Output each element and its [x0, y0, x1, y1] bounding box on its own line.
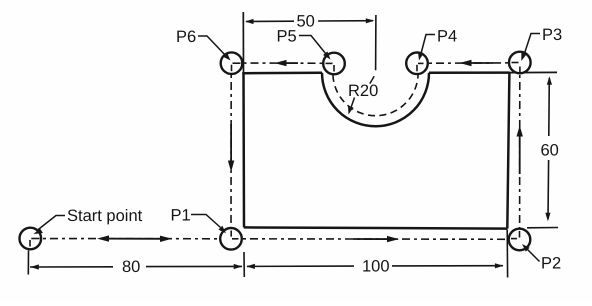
label P2 + leader [522, 244, 561, 273]
svg-text:Start point: Start point [67, 207, 143, 225]
tool path bottom segment P1-P2 dashed [231, 238, 520, 241]
contour bottom edge [244, 227, 508, 228]
dimension 50: line, arrows, text [245, 13, 374, 31]
svg-text:P5: P5 [277, 28, 297, 46]
tool path top segment P4-P3 dashed [417, 62, 520, 65]
svg-text:R20: R20 [348, 82, 378, 100]
tool circle P2 [509, 229, 531, 251]
label P5 + leader [277, 28, 331, 60]
tool path top segment P6-P5 dashed [232, 62, 335, 64]
tool circle Start point [20, 228, 42, 250]
tool path dashed arc P5-P4 [333, 64, 418, 116]
svg-text:50: 50 [297, 13, 315, 31]
R20 radial tick from arc centre [370, 76, 374, 83]
svg-text:100: 100 [362, 258, 390, 276]
svg-text:80: 80 [122, 258, 140, 276]
direction arrow P3-to-P4 left [460, 60, 494, 66]
label R20 + leader arrow to dashed arc [348, 82, 378, 115]
direction arrow P5-to-P6 left [275, 60, 299, 66]
direction arrow P6-to-P1 down [228, 124, 234, 172]
tool path right vertical P2-P3 dashed [519, 63, 521, 240]
dimension 50 right extension line [375, 15, 377, 70]
tool circle P4 [406, 53, 428, 75]
dimension 80: extensions, line, arrows, text [28, 251, 244, 278]
svg-text:P1: P1 [171, 207, 191, 225]
tool circle P5 [323, 53, 345, 75]
contour right edge [507, 73, 509, 229]
direction arrow P1-to-P2 right [353, 236, 399, 242]
tool circle P3 [509, 52, 531, 74]
svg-text:60: 60 [541, 142, 559, 160]
label P6 + leader [176, 28, 231, 61]
tool path start segment Start-P1 dashed [31, 238, 231, 240]
double direction arrow Start-P1 [97, 235, 172, 242]
svg-text:P3: P3 [542, 26, 562, 44]
60-dim top extension line [510, 71, 558, 73]
contour top edge right segment [429, 71, 510, 74]
direction arrow P2-to-P3 up [517, 126, 523, 175]
dimension 100: extension, line, arrows, text [246, 230, 507, 278]
label Start point + leader [34, 207, 143, 234]
svg-text:P6: P6 [176, 28, 196, 46]
contour left edge + 50-dim left extension [242, 12, 245, 227]
contour notch arc R20 solid [322, 73, 429, 127]
tool circle P1 [220, 228, 242, 250]
dimension 60: bottom extension, line, arrows, text [527, 76, 559, 228]
label P1 + leader [171, 207, 227, 234]
tool path left vertical P6-P1 dashed [230, 63, 232, 239]
contour top edge left segment [242, 72, 322, 75]
label P4 + leader [418, 28, 457, 61]
svg-text:P2: P2 [541, 255, 561, 273]
tool circle P6 [221, 52, 243, 74]
svg-text:P4: P4 [437, 28, 457, 46]
label P3 + leader [521, 26, 562, 61]
